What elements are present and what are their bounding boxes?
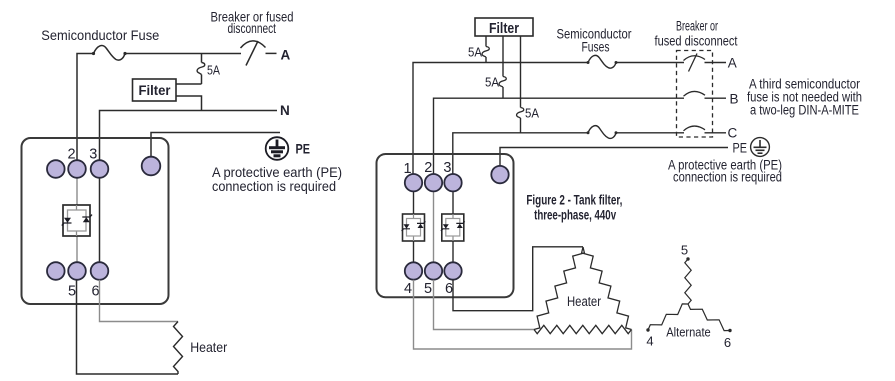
wire: line B (right): [434, 98, 727, 174]
terminal 2 (right): [425, 174, 442, 191]
terminal 6: [91, 262, 109, 280]
controller box (right DIN-A-MITE): [377, 154, 514, 297]
fuse F1 semiconductor fuse on line A: [94, 46, 126, 61]
wire: terminal 6 down and right to heater top (grey): [100, 280, 179, 322]
svg-text:6: 6: [445, 281, 453, 297]
wire: line A left segment with corner down to terminal 2: [77, 54, 241, 161]
svg-text:2: 2: [424, 160, 432, 176]
wire: terminal 3 to SCR box 2: [452, 183, 454, 214]
svg-text:Filter: Filter: [489, 21, 519, 37]
svg-text:A: A: [281, 47, 291, 62]
svg-text:connection is required: connection is required: [212, 178, 336, 194]
svg-text:4: 4: [404, 281, 412, 297]
fuse semiconductor on line C: [588, 126, 616, 139]
terminal 5 (right): [425, 262, 442, 279]
svg-text:5: 5: [424, 281, 432, 297]
resistor heater delta bottom side: [534, 325, 632, 333]
svg-text:5A: 5A: [468, 45, 483, 59]
wire: filter leg 3 with 5A fuse to line C: [520, 36, 522, 133]
svg-text:PE: PE: [733, 141, 748, 156]
wire: terminal 2 to SCR box (grey): [76, 169, 78, 210]
alternate wye: right leg resistor: [688, 304, 730, 331]
svg-text:Heater: Heater: [190, 339, 227, 355]
wire: terminal 3 to terminal 6: [99, 169, 101, 271]
wire: SCR box 2 to terminal 6: [452, 241, 454, 271]
wire: filter leg 1 with 5A fuse to line A: [485, 36, 487, 63]
wire: stub before A label: [266, 52, 277, 54]
filter U1 box: [133, 79, 177, 101]
wire: line A (right): [413, 63, 726, 175]
svg-text:B: B: [730, 92, 739, 107]
terminal circles top row (left): [47, 160, 65, 178]
breaker pole C: [684, 126, 706, 131]
resistor heater (left): [174, 322, 183, 375]
fuse semiconductor on line A: [588, 55, 616, 68]
svg-text:5A: 5A: [525, 106, 540, 120]
svg-text:C: C: [728, 125, 738, 140]
PE symbol (left, protective earth): [266, 137, 289, 160]
terminal 6 (right): [444, 262, 461, 279]
svg-text:5A: 5A: [485, 75, 500, 89]
svg-text:three-phase, 440v: three-phase, 440v: [534, 208, 616, 223]
wire: filter top-right to 5A fuse: [176, 83, 202, 85]
wire: line C (right): [453, 133, 726, 174]
wire: terminal 1 to SCR box 1: [413, 183, 415, 214]
svg-text:disconnect: disconnect: [228, 20, 277, 36]
controller box (left DIN-A-MITE): [22, 138, 169, 304]
svg-text:fused disconnect: fused disconnect: [655, 34, 738, 49]
svg-text:PE: PE: [296, 141, 311, 157]
alternate wye: left leg resistor: [648, 304, 688, 330]
svg-text:connection is required: connection is required: [673, 170, 782, 185]
wire: filter bottom-right down to line N: [176, 96, 202, 111]
resistor heater delta right side: [582, 247, 632, 330]
svg-text:Alternate: Alternate: [666, 325, 711, 340]
svg-text:3: 3: [89, 147, 97, 163]
wire: terminal 5 down and right to heater bottom: [77, 280, 179, 374]
svg-text:A: A: [728, 55, 737, 70]
PE symbol (right): [751, 138, 770, 157]
terminal PE (right box): [491, 166, 508, 183]
wire: terminal 6 down right and up to delta apex: [453, 247, 583, 311]
svg-text:5: 5: [681, 243, 688, 258]
breaker pole A: [684, 56, 706, 61]
SCR module U5 (right, phase C): [441, 214, 465, 241]
wire: SCR box to terminal 5 (grey): [76, 231, 78, 271]
svg-text:4: 4: [646, 334, 653, 349]
svg-text:6: 6: [724, 335, 731, 350]
svg-text:a two-leg DIN-A-MITE: a two-leg DIN-A-MITE: [750, 102, 859, 117]
alternate wye: top leg resistor: [685, 259, 691, 304]
wire: PE terminal up and right: [151, 133, 280, 161]
svg-text:Heater: Heater: [567, 294, 601, 309]
svg-text:Semiconductor Fuse: Semiconductor Fuse: [41, 27, 159, 43]
svg-text:Breaker or: Breaker or: [676, 18, 718, 33]
breaker SW1 (disconnect) on line A: [241, 41, 266, 48]
wire: PE line (right): [500, 148, 728, 167]
svg-text:5: 5: [68, 284, 76, 300]
wire: terminal 4 down right and up to delta corner (grey): [414, 280, 632, 349]
svg-text:1: 1: [403, 161, 411, 177]
svg-text:6: 6: [91, 284, 99, 300]
terminal PE (left box): [142, 157, 161, 176]
svg-text:3: 3: [443, 160, 451, 176]
wire: filter leg 2 with 5A fuse to line B: [502, 36, 504, 98]
wire: line N: [100, 111, 278, 161]
terminal circles bottom row (left): [47, 262, 65, 280]
terminal 4: [405, 262, 422, 279]
thyristor pair glyphs: [64, 218, 71, 223]
resistor heater delta left side: [534, 247, 584, 330]
SCR module U4 (right, phase A): [402, 214, 426, 241]
svg-text:5A: 5A: [207, 64, 221, 78]
terminal 3: [91, 160, 109, 178]
svg-text:Filter: Filter: [139, 82, 172, 98]
wire: terminal 5 down and right to delta left corner (grey): [434, 280, 535, 330]
wire: terminal 2 to terminal 5 (grey): [433, 183, 435, 271]
fuse F2 5A fuse vertical: [201, 54, 203, 85]
wire: SCR box 1 to terminal 4: [413, 241, 415, 271]
terminal 2: [68, 160, 86, 178]
SCR module U2 (left): [62, 205, 92, 236]
svg-text:Fuses: Fuses: [582, 40, 610, 55]
terminal 5: [68, 262, 86, 280]
terminal 1: [405, 174, 422, 191]
breaker dashed enclosure: [677, 51, 713, 138]
breaker pole B: [684, 91, 706, 96]
terminal 3 (right): [444, 174, 461, 191]
svg-text:2: 2: [67, 147, 75, 163]
svg-text:N: N: [280, 103, 290, 118]
filter U3 box (right): [475, 18, 533, 36]
svg-text:Figure 2 - Tank filter,: Figure 2 - Tank filter,: [526, 192, 622, 207]
